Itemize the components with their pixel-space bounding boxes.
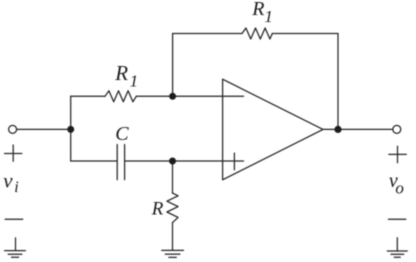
svg-text:v: v	[3, 168, 13, 192]
svg-text:C: C	[115, 123, 129, 145]
svg-text:i: i	[14, 179, 18, 196]
svg-text:R: R	[151, 199, 164, 220]
svg-text:1: 1	[130, 72, 139, 91]
svg-text:R: R	[251, 0, 264, 20]
svg-text:1: 1	[264, 7, 273, 26]
svg-text:R: R	[114, 61, 128, 85]
svg-text:o: o	[395, 179, 404, 198]
